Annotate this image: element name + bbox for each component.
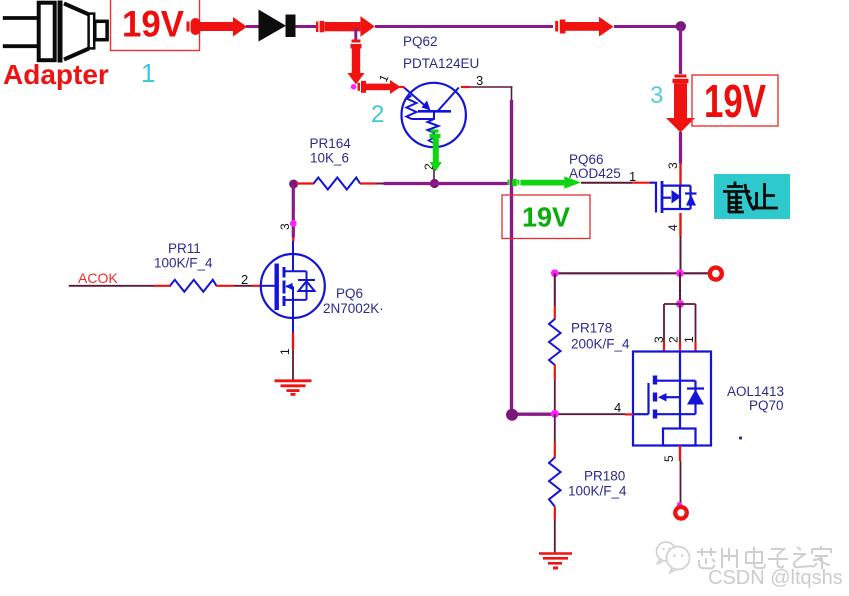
wire gate lead into PQ70 pin4: [555, 413, 625, 415]
svg-text:1: 1: [682, 336, 696, 343]
ground (below PQ6): [275, 381, 312, 395]
svg-text:PQ62: PQ62: [403, 34, 438, 49]
svg-text:4: 4: [666, 224, 680, 231]
terminal ring (bottom): [675, 507, 687, 519]
annotation box 19V (right): [692, 75, 778, 127]
svg-text:100K/F_4: 100K/F_4: [154, 256, 213, 271]
svg-text:PR164: PR164: [310, 136, 352, 151]
wire thick purple corner to PR178/PR180 node: [512, 413, 556, 416]
resistor PR11: [154, 241, 262, 292]
node tick (magenta) on drain wire: [290, 220, 297, 227]
diode D1: [259, 10, 296, 42]
svg-text:PQ70: PQ70: [749, 398, 784, 413]
transistor Q PQ66 (AOD425 P-MOSFET): [650, 181, 697, 213]
resistor PR180: [549, 414, 627, 553]
wire stub down at x=355: [354, 28, 357, 40]
wire down to gate bracket: [679, 273, 681, 305]
svg-text:19V: 19V: [122, 4, 184, 45]
transistor Q PQ62 (PDTA124EU): [402, 83, 466, 148]
svg-text:PQ6: PQ6: [336, 286, 363, 301]
flow arrow A4 (down, 19V into PQ66) with hash: [666, 75, 695, 133]
wire thick purple vertical (PQ62 pin3 net down): [510, 100, 513, 415]
svg-text:ACOK: ACOK: [78, 270, 118, 286]
wire PQ62 pin2 down to bus: [433, 148, 435, 183]
svg-text:3: 3: [652, 336, 666, 343]
svg-text:2: 2: [371, 101, 384, 128]
svg-text:PR11: PR11: [168, 241, 201, 256]
ground (below PR180): [539, 554, 572, 569]
junction dot (right, magenta): [676, 269, 684, 277]
svg-text:200K/F_4: 200K/F_4: [571, 337, 630, 352]
svg-text:19V: 19V: [704, 75, 766, 127]
annotation box 19V (green, gate drive): [502, 195, 590, 239]
node (magenta) at PQ62 input: [351, 84, 357, 90]
flow arrow A3 with hash: [555, 17, 613, 37]
wire from bus dot down to PQ6 drain: [292, 184, 295, 238]
stray dot mark: [739, 436, 742, 439]
svg-text:4: 4: [614, 400, 621, 415]
junction dot (magenta, divider node): [551, 410, 559, 418]
svg-text:PR180: PR180: [584, 468, 625, 483]
junction dot (purple, corner): [506, 409, 518, 421]
annotation box 19V (input): [111, 0, 200, 51]
wire PQ62 pin3 (red tick + maroon to corner): [461, 86, 470, 88]
wire bracket to AOL1413 pins 1-2-3: [664, 304, 696, 342]
svg-text:CSDN @ltqshs: CSDN @ltqshs: [708, 567, 843, 589]
resistor PR164: [296, 136, 360, 190]
svg-text:2: 2: [241, 272, 248, 287]
svg-text:3: 3: [650, 82, 663, 109]
svg-text:3: 3: [278, 223, 292, 230]
svg-text:3: 3: [666, 162, 680, 169]
svg-text:PDTA124EU: PDTA124EU: [403, 56, 479, 71]
wire bus (PR164 right side to crossing): [360, 182, 377, 184]
wire red tick into PQ62 pin1: [398, 86, 405, 88]
svg-text:10K_6: 10K_6: [310, 151, 349, 166]
svg-text:3: 3: [476, 73, 483, 88]
wire ACOK: [69, 285, 154, 287]
svg-text:1: 1: [141, 58, 155, 88]
wire (diode to hash): [296, 25, 317, 28]
wire PQ6 source to ground: [292, 318, 294, 333]
wire node row y=272.5: [555, 272, 680, 274]
junction dot left end of bus: [289, 180, 298, 189]
svg-text:AOD425: AOD425: [569, 166, 621, 181]
flow arrow A5 (down to PQ62 input) with hash: [348, 40, 365, 85]
wire PQ66 pin3 (purple + red): [679, 132, 682, 164]
svg-text:PR178: PR178: [571, 321, 612, 336]
terminal ring (top): [710, 268, 722, 280]
adapter plug icon: [3, 1, 107, 63]
junction dot (top-right corner): [676, 21, 686, 31]
wire red (green arrow to PQ66 gate): [581, 182, 632, 184]
svg-text:1: 1: [376, 72, 392, 84]
svg-text:AOL1413: AOL1413: [727, 384, 784, 399]
junction dot at bus below PQ62: [430, 179, 439, 188]
svg-text:1: 1: [278, 348, 292, 355]
wire PQ6 drain lead ticks: [292, 238, 294, 242]
wire PQ66 pin4 down: [679, 213, 681, 236]
svg-text:19V: 19V: [522, 202, 570, 233]
svg-text:5: 5: [662, 455, 676, 462]
svg-text:100K/F_4: 100K/F_4: [568, 484, 627, 499]
flow arrow A2 with hash: [316, 16, 375, 37]
junction dot (bracket, magenta): [676, 300, 684, 308]
flow arrow green (PQ62 collector) with hash: [430, 130, 442, 172]
svg-text:2: 2: [667, 336, 681, 343]
wire PQ70 pin5 down: [679, 446, 681, 462]
watermark logo (chat bubbles): [657, 542, 690, 573]
wire top bus: [375, 25, 553, 28]
watermark text 芯片电子之家 (drawn strokes): [697, 546, 831, 569]
wire right column (down from bus): [679, 27, 682, 75]
svg-text:PQ66: PQ66: [569, 152, 604, 167]
flow arrow A6 (into PQ62 pin1) with hash: [358, 80, 401, 94]
transistor U PQ70 (AOL1413 N-MOSFET block): [633, 352, 711, 446]
svg-text:1: 1: [629, 169, 636, 184]
junction dot (left, magenta): [551, 269, 559, 277]
flow arrow A1 with hash: [187, 17, 248, 37]
svg-text:2N7002K·: 2N7002K·: [323, 301, 384, 316]
transistor Q PQ6 (2N7002K N-MOSFET): [261, 254, 325, 318]
status box (cyan) 截止: [714, 174, 790, 219]
node tick (magenta) above ring: [677, 502, 682, 507]
svg-text:Adapter: Adapter: [3, 59, 109, 90]
resistor PR178: [549, 273, 630, 414]
wire (arrow to diode): [246, 25, 259, 28]
flow arrow green (to PQ66 gate) with hash: [507, 176, 581, 188]
